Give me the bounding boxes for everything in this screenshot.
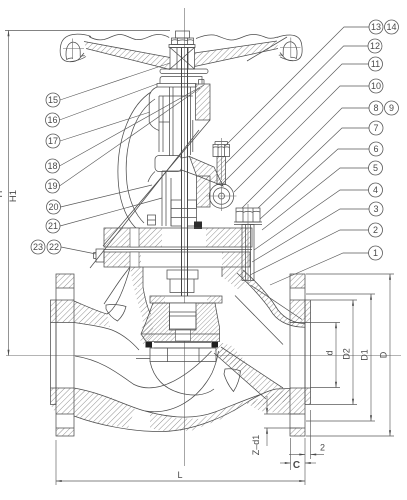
leader 1	[270, 253, 369, 285]
svg-text:6: 6	[373, 144, 378, 154]
balloon 18	[46, 159, 60, 173]
outlet bottom wall (hatched)	[246, 389, 290, 414]
packing rings	[171, 200, 197, 226]
balloon 15	[46, 93, 60, 107]
balloon 4	[369, 183, 383, 197]
leader 3	[252, 209, 369, 262]
yoke left arm outer curve	[118, 92, 151, 229]
leader 18	[60, 85, 205, 166]
leader 8	[242, 108, 369, 208]
left pipe lower wall (hatched)	[74, 388, 164, 432]
bonnet stud bolt shank	[242, 204, 254, 284]
outlet near wall (hatched)	[246, 388, 290, 406]
handwheel right rim center mark	[290, 38, 292, 59]
balloon 5	[369, 161, 383, 175]
stuffing box left wall	[162, 171, 182, 226]
handwheel wavy top profile right	[196, 35, 278, 41]
bridge right wall	[214, 347, 283, 399]
svg-text:5: 5	[373, 163, 378, 173]
dimension L	[56, 440, 305, 485]
left boss plug	[94, 249, 105, 262]
flow passage S lower curve	[145, 351, 219, 412]
bonnet flange (hatched slab)	[104, 228, 252, 247]
yoke front edge line 1	[90, 130, 199, 268]
handwheel lower rim edge left	[70, 57, 86, 62]
bonnet gasket	[104, 249, 252, 251]
balloon 22	[47, 240, 61, 254]
dimension H H1 extension line top	[5, 30, 170, 32]
svg-text:Z–d1: Z–d1	[251, 435, 261, 456]
svg-text:7: 7	[373, 123, 378, 133]
handwheel left rim center mark	[72, 39, 74, 60]
handwheel nut	[172, 38, 194, 45]
dimension D2	[311, 300, 357, 405]
handwheel left spoke (hatched section)	[84, 42, 170, 70]
leader 2	[250, 230, 369, 275]
centerline horizontal pipe axis	[6, 355, 401, 357]
leader 15	[60, 63, 170, 100]
svg-text:14: 14	[386, 22, 396, 32]
svg-text:22: 22	[49, 242, 59, 252]
yoke left arm inner curve	[126, 99, 155, 223]
bonnet stud nut	[236, 208, 260, 222]
balloon 9	[385, 101, 399, 115]
gland lever (hatched)	[182, 157, 224, 187]
left rib window	[106, 305, 126, 322]
balloon 1	[369, 246, 383, 260]
chamber left wall (hatched)	[134, 287, 154, 348]
dimension C	[280, 438, 316, 485]
disc upper lip	[150, 296, 222, 303]
eye bolt shank	[217, 157, 226, 185]
dimension D	[306, 274, 394, 436]
stuffing box right wall (hatched)	[197, 176, 211, 207]
yoke side plate (hatched)	[196, 80, 211, 121]
svg-text:D: D	[379, 351, 389, 358]
handwheel rim left curl	[60, 34, 91, 62]
svg-text:20: 20	[48, 202, 58, 212]
leader 12	[225, 46, 368, 164]
right flange plate	[290, 274, 311, 436]
yoke bell housing	[148, 156, 182, 183]
yoke sleeve top plate	[157, 84, 196, 88]
balloon 20	[47, 200, 61, 214]
svg-text:L: L	[177, 470, 182, 480]
gusset rib edge lower	[235, 296, 283, 345]
leader 20	[61, 185, 153, 207]
balloon 16	[46, 113, 60, 127]
svg-text:12: 12	[370, 41, 380, 51]
gusset rib edge upper	[251, 285, 303, 320]
leader 16	[60, 84, 158, 120]
eye bolt eye and pivot pin	[207, 181, 237, 211]
leader 7	[258, 128, 369, 208]
leader 5	[262, 168, 369, 230]
body top flange (hatched slab)	[104, 252, 250, 267]
svg-text:C: C	[293, 460, 300, 471]
centerline vertical stem axis	[184, 8, 186, 466]
svg-text:9: 9	[389, 103, 394, 113]
stem top cap	[176, 31, 190, 38]
svg-text:H1: H1	[8, 190, 19, 202]
svg-text:21: 21	[48, 221, 58, 231]
dimension 2	[289, 410, 325, 459]
balloon 3	[369, 202, 383, 216]
disc seal rings (black)	[146, 342, 219, 348]
yoke bushing collar	[160, 77, 202, 84]
left flange bore edge lines	[51, 322, 75, 324]
balloon 10	[369, 79, 383, 93]
disc body (hatched)	[141, 303, 220, 342]
balloon 7	[369, 121, 383, 135]
svg-text:1: 1	[373, 248, 378, 258]
handwheel right spoke (hatched section)	[195, 41, 279, 67]
leader 6	[260, 149, 369, 219]
svg-text:11: 11	[371, 59, 380, 69]
leader 17	[60, 112, 150, 141]
svg-text:23: 23	[33, 242, 43, 252]
svg-text:17: 17	[48, 136, 58, 146]
packing seal (black)	[194, 222, 202, 230]
left pipe upper wall (hatched)	[74, 268, 139, 350]
balloon 14	[385, 20, 399, 34]
eye bolt nut	[213, 142, 230, 157]
handwheel rim right curl	[277, 35, 302, 61]
svg-text:15: 15	[48, 95, 58, 105]
balloon 19	[46, 179, 60, 193]
leader 4	[254, 190, 369, 250]
svg-text:16: 16	[47, 115, 57, 125]
balloon 21	[46, 219, 60, 233]
body bottom wall (hatched)	[145, 389, 290, 432]
svg-text:3: 3	[373, 204, 378, 214]
leader 13	[225, 27, 369, 146]
dimension Z-d1	[251, 396, 300, 455]
leader 19	[60, 88, 201, 186]
bridge underside arc	[150, 362, 214, 395]
hub skirt	[160, 69, 208, 74]
svg-text:8: 8	[373, 103, 378, 113]
yoke sleeve walls	[159, 87, 193, 156]
yoke head left profile	[149, 87, 159, 131]
svg-text:2: 2	[320, 443, 325, 453]
eye bolt centerline	[221, 138, 223, 180]
bonnet stud washer	[234, 221, 262, 223]
svg-text:H: H	[0, 190, 5, 197]
balloon 11	[369, 57, 383, 71]
washer under nut	[169, 45, 195, 48]
svg-text:d: d	[325, 350, 335, 355]
svg-text:D1: D1	[360, 349, 370, 361]
yoke front edge line 2	[103, 120, 210, 246]
dimension D1	[306, 294, 375, 421]
bonnet neck left wall (hatched)	[104, 267, 151, 314]
handwheel wavy top profile left	[89, 35, 169, 40]
leader 21	[60, 198, 162, 226]
backseat collar	[167, 270, 198, 293]
bonnet neck right wall (hatched)	[222, 267, 247, 290]
right flange bore edge lines	[290, 322, 311, 324]
balloon 8	[369, 101, 383, 115]
leader 11	[222, 64, 369, 184]
dimension d	[310, 323, 340, 388]
balloon 2	[369, 223, 383, 237]
left flange raised face	[51, 300, 57, 405]
svg-text:18: 18	[47, 161, 57, 171]
left flange plate	[51, 274, 75, 436]
flow passage S upper curve	[75, 351, 212, 388]
balloon 12	[368, 39, 382, 53]
seat ring (elevation)	[136, 348, 216, 362]
balloon 13	[369, 20, 383, 34]
svg-text:4: 4	[373, 185, 378, 195]
handwheel hub (cross hatched)	[170, 48, 195, 70]
dimension H H1 vertical line	[8, 31, 10, 356]
packing follower small blocks	[148, 215, 156, 225]
outlet top wall band (hatched)	[237, 270, 305, 327]
balloon 17	[46, 134, 60, 148]
body wall right of disc (hatched)	[214, 342, 247, 371]
balloon 6	[369, 142, 383, 156]
svg-text:2: 2	[373, 225, 378, 235]
handwheel lower rim edge right	[280, 57, 293, 61]
svg-text:19: 19	[47, 181, 57, 191]
stem	[181, 48, 183, 297]
balloon 23	[31, 240, 45, 254]
leader 22	[61, 247, 96, 254]
svg-text:10: 10	[371, 81, 381, 91]
right flange raised face	[305, 300, 311, 405]
svg-text:D2: D2	[342, 348, 352, 360]
leader 10	[234, 86, 369, 192]
svg-text:13: 13	[371, 22, 381, 32]
right rib window	[224, 369, 241, 392]
